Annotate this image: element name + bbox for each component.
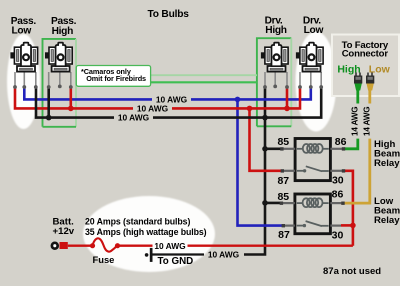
wire red feed to high beam relay 87 (250, 108, 284, 170)
ground symbol (145, 253, 149, 257)
svg-text:Relay: Relay (374, 215, 400, 226)
connector Drv High (261, 43, 288, 72)
relay U2 low beam box (280, 194, 345, 234)
green wire pale horizontal to bulbs (76, 74, 257, 76)
svg-text:Fuse: Fuse (93, 254, 115, 265)
svg-text:10 AWG: 10 AWG (118, 113, 149, 123)
wire black to relay2 85 (265, 202, 282, 205)
wire Pass High pin1 black (47, 88, 50, 118)
battery terminal (52, 243, 58, 249)
connector Drv Low (296, 43, 323, 72)
relay U1 coil (297, 148, 304, 150)
relay U1 high beam box (280, 139, 345, 181)
connector pin stubs Pass Low (15, 72, 36, 86)
svg-text:14 AWG: 14 AWG (363, 107, 372, 136)
svg-text:To GND: To GND (158, 256, 194, 267)
wire black to relay1 85 (265, 148, 282, 151)
svg-text:High: High (265, 25, 287, 36)
connector pin stubs Pass High (49, 72, 71, 86)
svg-text:Connector: Connector (342, 48, 389, 59)
connector pin stubs Drv Low (300, 72, 321, 86)
green wire loop around Pass. High connector (43, 39, 77, 127)
svg-text:87a not used: 87a not used (323, 266, 381, 277)
wire yellow factory low to relay2 86 (341, 89, 370, 203)
relay U2 switch (297, 225, 303, 227)
highlight ellipse behind Pass. Low connector (7, 34, 40, 129)
factory connector plug yellow (366, 73, 374, 91)
junction dots (235, 97, 241, 103)
highlight blob behind fuse note (83, 196, 215, 272)
green wire bright horizontal to bulbs (76, 81, 257, 83)
wire blue feed to low beam relay 87 (238, 99, 284, 225)
svg-text:High: High (337, 64, 360, 76)
svg-text:14 AWG: 14 AWG (350, 107, 359, 136)
svg-text:10 AWG: 10 AWG (154, 241, 185, 251)
relay U2 pin stubs (281, 202, 295, 204)
wire red relay2 30 stub joining (341, 224, 353, 227)
To Factory Connector panel (332, 35, 399, 97)
factory connector plug green (354, 73, 362, 91)
black bus 10 AWG (36, 88, 321, 118)
svg-text:+12v: +12v (53, 226, 75, 237)
relay U1 pin stubs (282, 148, 296, 150)
note box Camaros only (76, 66, 150, 87)
svg-text:86: 86 (332, 189, 344, 201)
svg-text:87: 87 (277, 175, 289, 187)
svg-text:86: 86 (335, 136, 347, 148)
green wire loop around Drv. High connector (257, 38, 291, 126)
red battery bus bottom (68, 244, 353, 246)
connector Pass High (45, 43, 72, 72)
svg-text:87: 87 (278, 229, 290, 241)
wire Drv High pin3 red (286, 88, 289, 108)
svg-text:30: 30 (332, 174, 344, 186)
wire black vertical relay feed + ground run (244, 88, 265, 255)
svg-text:10 AWG: 10 AWG (208, 250, 239, 260)
svg-text:30: 30 (332, 230, 344, 242)
relay U2 coil (297, 202, 304, 204)
svg-text:Relay: Relay (374, 158, 400, 169)
svg-text:85: 85 (277, 136, 289, 148)
svg-text:85: 85 (277, 191, 289, 203)
relay U1 switch (297, 170, 303, 172)
fuse symbol (93, 238, 118, 251)
svg-text:High: High (52, 26, 74, 37)
connector pin stubs Drv High (265, 72, 287, 86)
wire Pass High pin3 red (70, 88, 73, 108)
svg-text:Omit for Firebirds: Omit for Firebirds (86, 74, 146, 83)
highlight ellipse behind Drv. Low connector (296, 32, 337, 132)
blue bus 10 AWG (24, 88, 311, 99)
svg-text:Low: Low (304, 25, 324, 36)
wire green factory high to relay1 86 (344, 89, 358, 149)
connector Pass Low (10, 43, 37, 72)
svg-text:35 Amps (high wattage bulbs): 35 Amps (high wattage bulbs) (85, 227, 207, 237)
svg-text:Low: Low (12, 26, 32, 37)
svg-text:To Bulbs: To Bulbs (148, 9, 190, 20)
wire red relay1 30 down to battery bus (344, 171, 353, 246)
red bus 10 AWG (15, 88, 300, 108)
svg-text:20 Amps (standard bulbs): 20 Amps (standard bulbs) (85, 217, 190, 227)
